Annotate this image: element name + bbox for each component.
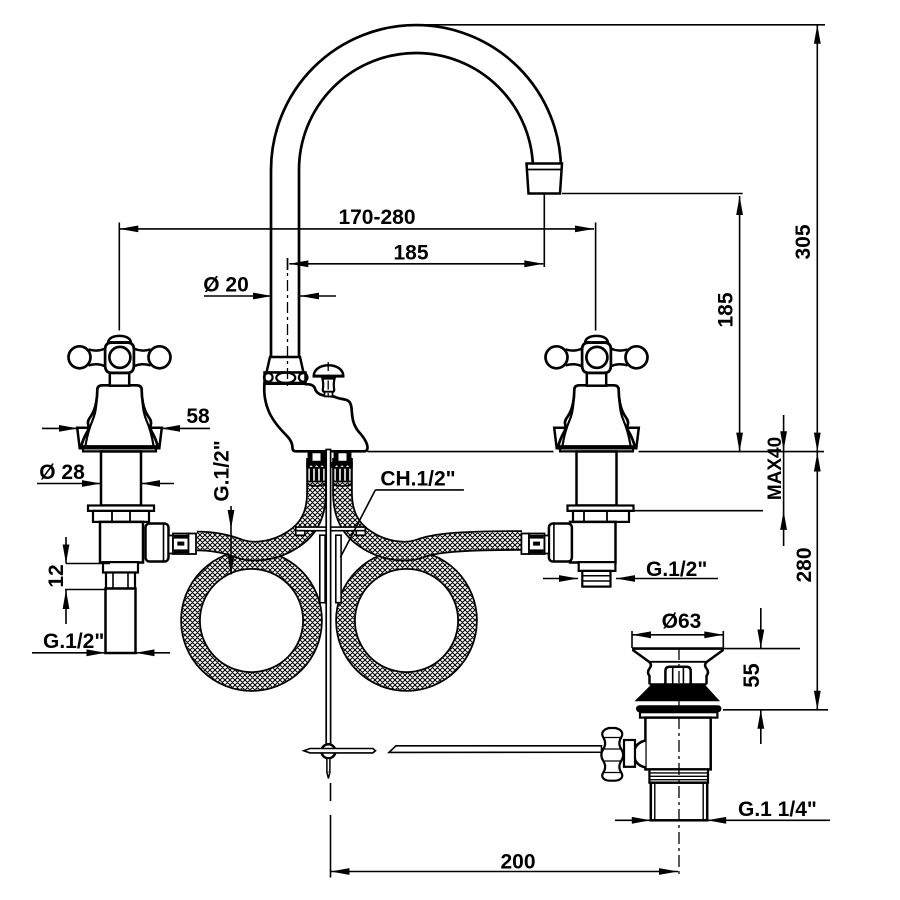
- svg-text:Ø 20: Ø 20: [203, 274, 249, 297]
- svg-text:200: 200: [500, 851, 535, 874]
- svg-text:12: 12: [45, 564, 68, 587]
- svg-text:MAX40: MAX40: [765, 437, 786, 500]
- svg-text:185: 185: [715, 292, 738, 327]
- svg-text:G.1/2": G.1/2": [646, 558, 707, 581]
- svg-text:Ø63: Ø63: [662, 610, 702, 633]
- svg-text:58: 58: [186, 405, 210, 428]
- svg-text:185: 185: [393, 242, 428, 265]
- svg-text:G.1/2": G.1/2": [211, 440, 234, 501]
- svg-text:G.1 1/4": G.1 1/4": [738, 798, 817, 821]
- svg-text:170-280: 170-280: [338, 206, 415, 229]
- svg-text:G.1/2": G.1/2": [43, 630, 104, 653]
- svg-text:CH.1/2": CH.1/2": [380, 468, 455, 491]
- svg-text:305: 305: [792, 224, 815, 259]
- svg-text:Ø 28: Ø 28: [39, 461, 85, 484]
- svg-text:280: 280: [793, 547, 816, 582]
- svg-text:55: 55: [739, 663, 764, 687]
